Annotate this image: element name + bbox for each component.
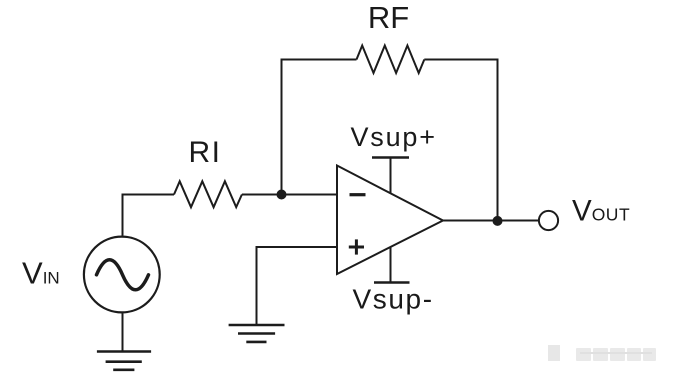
wire op-amp output [443,220,539,222]
wire Vsup+ stub [390,158,392,194]
svg-text:RF: RF [368,0,409,35]
voltage source sine symbol [97,260,149,290]
voltage source V1 circle [84,237,160,313]
wire RI to op-amp inverting input [242,194,337,196]
output node junction dot [493,216,503,226]
output terminal circle [539,211,558,230]
wire input source to RI [123,195,175,236]
op-amp U1 [337,166,443,275]
resistor RF [357,46,425,74]
svg-text:RI: RI [189,136,222,169]
watermark logo [548,345,560,361]
svg-text:Vsup+: Vsup+ [351,122,437,152]
wire non-inverting input to ground [257,247,338,325]
wire RF to output node [424,60,497,221]
Vsup+ supply bar [372,156,409,159]
svg-text:Vsup-: Vsup- [353,284,434,315]
wire Vsup- stub [390,247,392,283]
watermark text [576,348,656,361]
wire feedback loop left vertical (node A to RF) [282,60,357,195]
resistor RI [174,181,242,207]
op-amp inverting input minus sign [350,193,366,196]
node A junction dot (inverting input node) [277,190,287,200]
wire source to ground [122,314,124,352]
Vsup- supply bar [374,281,410,284]
ground (non-inverting input) [229,325,285,342]
op-amp non-inverting input plus sign [349,239,364,254]
ground (source) [97,352,151,370]
